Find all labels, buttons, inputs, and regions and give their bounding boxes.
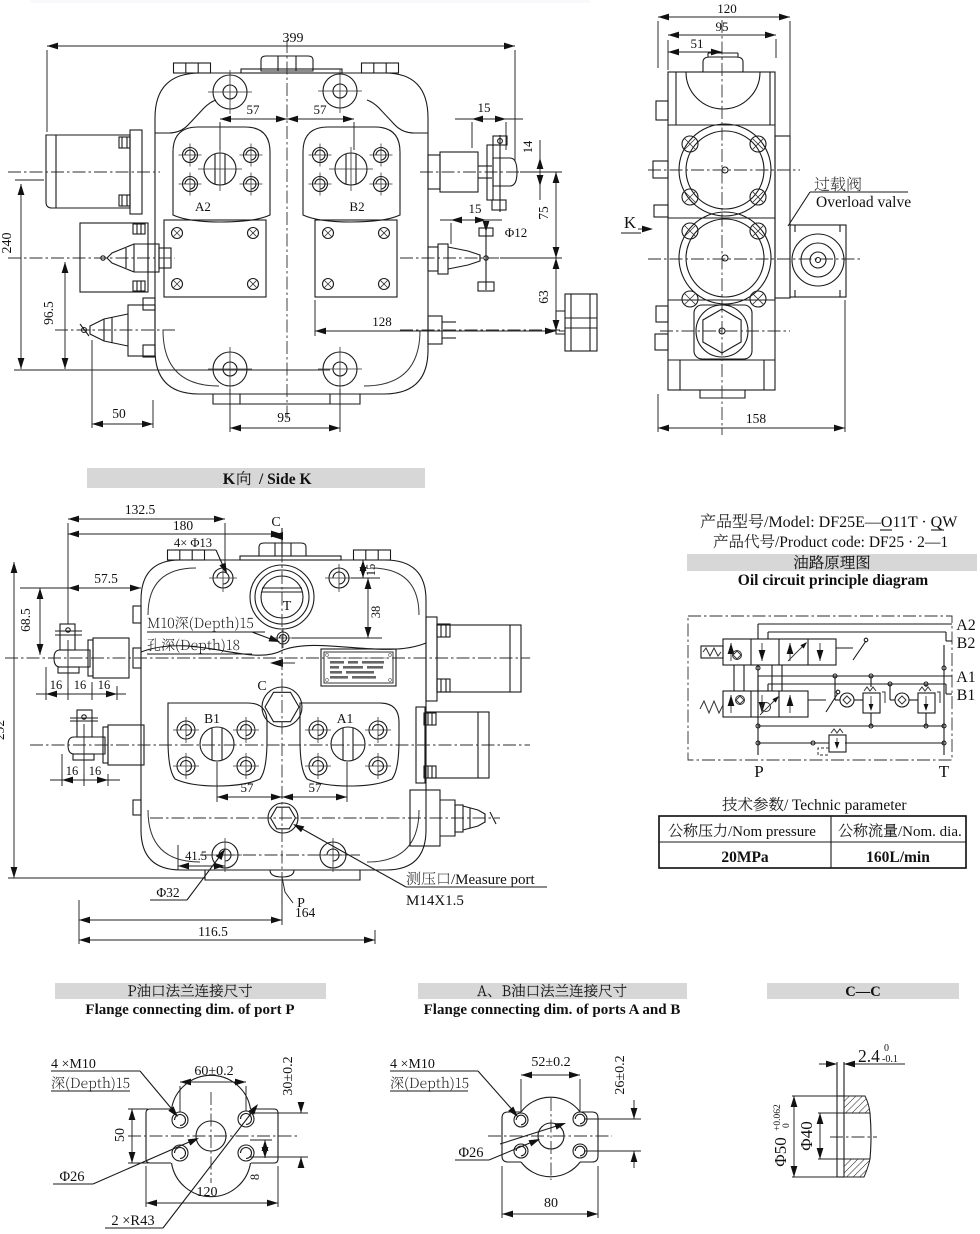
svg-text:158: 158 (746, 411, 767, 426)
svg-text:51: 51 (691, 36, 704, 51)
svg-text:116.5: 116.5 (198, 924, 228, 939)
svg-text:B2: B2 (349, 199, 364, 214)
svg-text:Φ32: Φ32 (156, 885, 179, 900)
svg-text:399: 399 (283, 31, 304, 46)
svg-text:4 ×M10: 4 ×M10 (51, 1057, 96, 1072)
svg-text:95: 95 (716, 19, 729, 34)
svg-text:0: 0 (782, 1123, 792, 1128)
svg-text:/ Side K: / Side K (258, 471, 312, 488)
svg-text:16: 16 (89, 764, 102, 778)
svg-text:57: 57 (241, 780, 255, 795)
svg-text:A1: A1 (337, 711, 354, 726)
svg-text:M14X1.5: M14X1.5 (406, 893, 464, 909)
svg-text:96.5: 96.5 (41, 301, 56, 325)
svg-text:Φ50: Φ50 (771, 1137, 790, 1166)
svg-text:P: P (754, 762, 763, 781)
svg-text:C: C (257, 679, 266, 694)
svg-text:K: K (223, 471, 236, 488)
svg-text:38: 38 (369, 606, 383, 619)
svg-text:4 ×M10: 4 ×M10 (390, 1057, 435, 1072)
svg-text:14: 14 (521, 140, 535, 153)
svg-text:16: 16 (50, 678, 63, 692)
svg-text:P: P (297, 896, 305, 911)
svg-text:/Product code: DF25 · 2—1: /Product code: DF25 · 2—1 (775, 534, 948, 551)
svg-text:A2: A2 (956, 617, 976, 634)
svg-text:68.5: 68.5 (18, 608, 33, 632)
svg-text:B1: B1 (204, 711, 220, 726)
svg-text:52±0.2: 52±0.2 (531, 1055, 570, 1070)
svg-text:2.4: 2.4 (858, 1046, 880, 1066)
svg-text:132.5: 132.5 (125, 502, 156, 517)
svg-text:Φ12: Φ12 (505, 225, 528, 240)
svg-text:128: 128 (372, 314, 392, 329)
svg-text:/Measure port: /Measure port (451, 872, 536, 888)
svg-text:80: 80 (544, 1196, 558, 1211)
svg-text:15: 15 (478, 100, 491, 115)
svg-text:50: 50 (113, 1128, 128, 1142)
svg-text:Oil circuit principle diagram: Oil circuit principle diagram (738, 572, 929, 589)
svg-text:-0.1: -0.1 (882, 1054, 898, 1065)
svg-text:Flange connecting dim. of por: Flange connecting dim. of port P (85, 1002, 294, 1018)
svg-text:57: 57 (314, 102, 328, 117)
svg-text:B1: B1 (957, 687, 976, 704)
svg-text:160L/min: 160L/min (866, 849, 930, 866)
svg-text:4× Φ13: 4× Φ13 (174, 536, 212, 550)
svg-text:20MPa: 20MPa (721, 849, 769, 866)
svg-text:16: 16 (98, 678, 111, 692)
svg-text:57: 57 (247, 102, 261, 117)
svg-text:292: 292 (0, 720, 7, 740)
svg-text:A1: A1 (956, 669, 976, 686)
svg-text:Overload valve: Overload valve (816, 194, 911, 211)
svg-text:41.5: 41.5 (185, 849, 207, 863)
svg-text:/Nom pressure: /Nom pressure (728, 824, 816, 840)
svg-text:57.5: 57.5 (94, 571, 118, 586)
svg-text:/ Technic parameter: / Technic parameter (784, 797, 907, 814)
svg-text:Flange connecting dim. of port: Flange connecting dim. of ports A and B (424, 1002, 681, 1018)
svg-text:T: T (283, 599, 292, 614)
svg-text:/Model: DF25E—O11T · QW: /Model: DF25E—O11T · QW (764, 514, 958, 531)
svg-text:/Nom. dia.: /Nom. dia. (898, 824, 962, 840)
svg-text:26±0.2: 26±0.2 (613, 1055, 628, 1094)
svg-text:15: 15 (469, 201, 482, 216)
svg-text:30±0.2: 30±0.2 (281, 1056, 296, 1095)
svg-text:15: 15 (364, 564, 378, 577)
svg-text:Φ26: Φ26 (59, 1169, 84, 1185)
svg-text:C—C: C—C (845, 984, 880, 1000)
svg-text:50: 50 (112, 406, 126, 421)
svg-text:16: 16 (66, 764, 79, 778)
svg-text:95: 95 (277, 410, 291, 425)
svg-text:57: 57 (309, 780, 323, 795)
svg-text:180: 180 (173, 518, 194, 533)
svg-text:120: 120 (197, 1185, 218, 1200)
svg-text:K: K (624, 213, 637, 232)
svg-text:60±0.2: 60±0.2 (194, 1064, 233, 1079)
svg-text:Φ26: Φ26 (458, 1145, 483, 1161)
svg-text:240: 240 (0, 233, 15, 254)
svg-text:16: 16 (74, 678, 87, 692)
svg-text:C: C (271, 515, 280, 530)
svg-text:B2: B2 (957, 635, 976, 652)
svg-text:2 ×R43: 2 ×R43 (111, 1213, 154, 1229)
svg-text:63: 63 (536, 290, 551, 304)
svg-text:120: 120 (717, 1, 737, 16)
svg-text:T: T (939, 762, 950, 781)
svg-text:8: 8 (248, 1174, 262, 1180)
svg-text:A2: A2 (195, 199, 211, 214)
svg-text:Φ40: Φ40 (797, 1121, 816, 1150)
svg-text:75: 75 (536, 206, 551, 220)
svg-text:0: 0 (884, 1043, 889, 1054)
